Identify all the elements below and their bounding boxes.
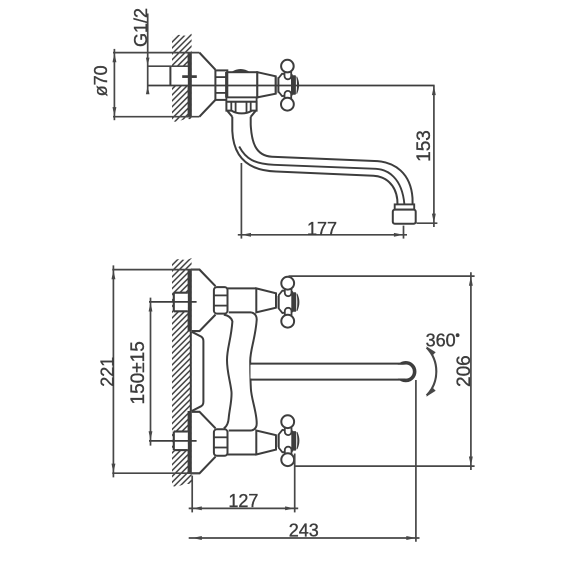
upper handle index bar (292, 292, 296, 312)
escutcheon wall face upper (thick bar, plan view) (188, 269, 192, 331)
escutcheon wall face lower (thick bar, plan view) (188, 411, 192, 474)
degree dot of 360 label (456, 333, 460, 337)
svg-text:243: 243 (289, 520, 319, 540)
spout end outer circle (plan view) (396, 362, 415, 381)
escutcheon wall face (thick bar, side view) (188, 52, 192, 117)
handle index bar (side view) (292, 75, 296, 95)
dimension 177: extension lines (240, 163, 242, 239)
svg-text:206: 206 (454, 355, 475, 387)
svg-text:150±15: 150±15 (128, 341, 149, 404)
dimension 221: extension lines (112, 269, 199, 271)
upper inlet centreline (149, 301, 197, 303)
dimension 127: extension lines (191, 476, 193, 513)
spout tube middle line (239, 147, 404, 205)
svg-text:127: 127 (228, 491, 258, 511)
spout tube outer edge (232, 117, 397, 205)
dimension 127: dimension line with arrows (189, 507, 299, 509)
svg-text:360: 360 (426, 331, 456, 351)
spout tailpiece (227, 111, 255, 117)
swivel rotation arc with arrows (427, 348, 437, 396)
dimension 150+-15: dimension line with arrows (150, 298, 152, 446)
upper handle bottom ball (281, 315, 294, 328)
faucet body right edge (plan view) (250, 312, 257, 430)
svg-text:G1/2: G1/2 (131, 8, 151, 47)
valve body joint bar (side view) (225, 72, 228, 98)
spout tube inner edge (251, 117, 413, 205)
svg-text:221: 221 (98, 357, 118, 387)
upper valve arm (plan view) (228, 288, 257, 312)
spout nut (side view) (226, 102, 256, 114)
lower inlet centreline (149, 440, 197, 442)
handle bottom neck (side view) (285, 91, 292, 99)
handle top neck (side view) (285, 72, 292, 80)
G1/2 inlet opening (side view) (170, 66, 187, 85)
svg-text:153: 153 (414, 130, 435, 162)
handle hub (side view) (279, 74, 292, 96)
escutcheon outline (side view) (199, 53, 215, 117)
upper handle top neck (285, 289, 292, 297)
dimension 206: dimension line with arrows (470, 272, 472, 470)
dimension G1/2: dimension line with arrows (147, 14, 149, 92)
faucet centreline (side view) (148, 85, 435, 87)
upper inlet opening (plan view) (174, 293, 188, 311)
svg-text:ø70: ø70 (91, 65, 111, 96)
upper hex connector nut (plan view) (214, 287, 228, 314)
dimension 243: extension line (415, 380, 417, 542)
wall section (plan view, hatched) (172, 258, 192, 487)
lower inlet opening (plan view) (174, 432, 188, 450)
spout aerator collar (395, 204, 415, 209)
hex connector nut (side view) (215, 70, 227, 100)
dimension G1/2: extension line (148, 65, 188, 67)
lower valve train group (mirror of upper) (192, 412, 299, 474)
handle bottom ball (side view) (281, 98, 294, 111)
wall section (side view, hatched) (172, 34, 192, 122)
wall mounting plate between inlets (192, 332, 204, 411)
dimension 177: dimension line with arrows (238, 234, 407, 236)
upper handle bottom neck (285, 308, 292, 316)
dimension o70: extension lines (113, 52, 199, 54)
upper valve train group (192, 270, 299, 332)
upper escutcheon outline (plan view) (192, 270, 216, 332)
spout tube interior (covers cap left half) (251, 365, 406, 379)
upper valve cone (plan view) (256, 288, 276, 312)
dimension 153: dimension line with arrows (433, 86, 435, 228)
valve cone (side view) (257, 72, 275, 97)
inlet centre tick (182, 75, 197, 78)
handle collar ring (side view, grey) (276, 77, 278, 93)
svg-text:177: 177 (307, 219, 337, 239)
upper handle end cap crescent (297, 294, 299, 311)
dimension 153: extension line (417, 222, 438, 224)
spout end cap circle (plan view) (398, 364, 414, 380)
upper handle top ball (281, 277, 294, 290)
wall surface line between escutcheons (190, 332, 192, 411)
upper handle collar ring (plan view, grey) (277, 296, 279, 309)
dimension 243: dimension line with arrows (189, 537, 420, 539)
valve body (side view) (227, 72, 257, 97)
spout aerator nozzle (393, 210, 416, 224)
dimension o70: dimension line with arrows (113, 49, 115, 120)
dimension 221: dimension line with arrows (112, 265, 114, 477)
spout tube edges (plan view) (251, 363, 406, 365)
dimension 206: extension lines (289, 275, 475, 277)
spout retaining ring (226, 97, 256, 101)
handle top ball (side view) (281, 60, 294, 73)
valve cap dome (231, 69, 250, 72)
upper handle hub (plan view) (279, 291, 292, 313)
faucet body left edge (plan view) (224, 315, 233, 429)
handle end cap crescent (side view) (297, 77, 299, 94)
